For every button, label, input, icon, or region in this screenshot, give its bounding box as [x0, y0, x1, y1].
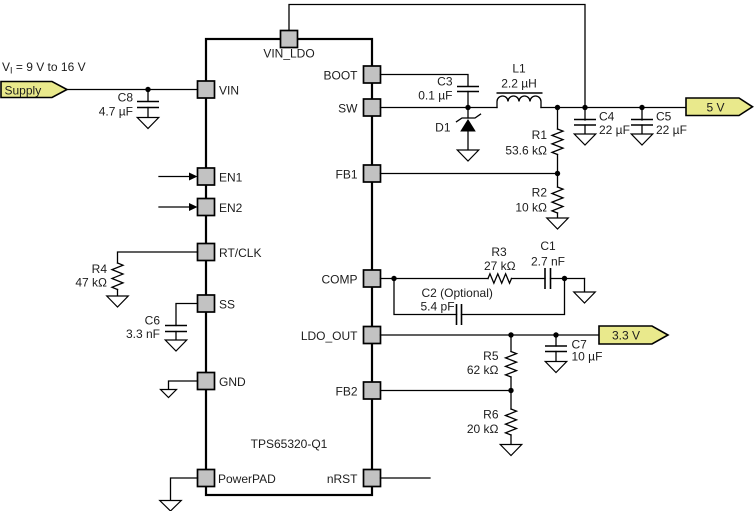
pin RT/CLK label [219, 246, 261, 260]
wire SS to C6 [176, 304, 198, 326]
wire R5 to FB2 node [510, 377, 512, 391]
pin SS label [219, 298, 235, 312]
capacitor C6 label [145, 314, 161, 328]
wire PowerPAD to ground [171, 478, 198, 501]
ground below C8 [137, 118, 159, 129]
svg-text:C2 (Optional): C2 (Optional) [422, 286, 493, 300]
net flag Supply [1, 82, 67, 98]
node junction C7 [553, 332, 558, 337]
svg-text:2.2 µH: 2.2 µH [501, 77, 537, 91]
resistor R2 label [532, 186, 548, 200]
svg-text:C6: C6 [145, 314, 161, 328]
net flag 5 V [686, 98, 753, 116]
svg-text:2.7 nF: 2.7 nF [531, 255, 565, 269]
ground below C6 [165, 340, 187, 351]
svg-text:3.3 nF: 3.3 nF [126, 327, 160, 341]
pin RT/CLK [198, 244, 215, 261]
pin VIN_LDO [281, 31, 298, 48]
capacitor C5 label [656, 110, 672, 124]
svg-text:R2: R2 [532, 186, 548, 200]
capacitor C4 label [599, 110, 615, 124]
svg-text:62 kΩ: 62 kΩ [467, 363, 499, 377]
svg-text:GND: GND [219, 375, 246, 389]
svg-text:3.3 V: 3.3 V [612, 328, 640, 342]
resistor R3 [488, 274, 512, 283]
svg-text:10 kΩ: 10 kΩ [515, 201, 547, 215]
wire nRST stub [381, 477, 431, 479]
resistor R6 value 20 kOhm [467, 422, 499, 436]
inductor L1 [497, 93, 543, 108]
capacitor C7 value 10 uF [572, 350, 603, 364]
capacitor C6 value 3.3 nF [126, 327, 160, 341]
net flag 3.3 V [599, 326, 668, 344]
ground below C4 [574, 134, 596, 145]
ground below PowerPAD [160, 501, 182, 511]
arrow into EN1 [159, 173, 198, 181]
svg-text:L1: L1 [512, 62, 526, 76]
wire C7 top [555, 335, 557, 346]
wire GND pin to ground [169, 381, 198, 390]
capacitor C8 label [118, 91, 134, 105]
pin SW label [338, 102, 358, 116]
resistor R4 [112, 263, 123, 290]
resistor R6 label [483, 408, 499, 422]
capacitor C4 value 22 uF [599, 123, 630, 137]
wire C5 top [641, 108, 643, 121]
node junction Supply/C8 [145, 87, 150, 92]
svg-text:FB1: FB1 [335, 168, 357, 182]
wire C2 right leg [462, 279, 565, 315]
capacitor C4 [574, 120, 596, 126]
node junction C5 [639, 105, 644, 110]
pin LDO_OUT [364, 327, 381, 344]
node junction R5 [508, 332, 513, 337]
svg-text:FB2: FB2 [335, 385, 357, 399]
capacitor C5 [631, 120, 653, 126]
capacitor C3 value 0.1 uF [418, 89, 452, 103]
node junction FB1/R1/R2 [555, 171, 560, 176]
pin SS [198, 295, 215, 312]
wire R2 to ground [557, 213, 559, 218]
ground below C5 [631, 134, 653, 145]
wire SW node to R1 [557, 108, 559, 130]
wire FB1 node to R2 [557, 174, 559, 188]
node junction COMP/C2 [391, 276, 396, 281]
resistor R2 [552, 187, 563, 213]
pin COMP [364, 270, 381, 287]
wire R6 to ground [510, 435, 512, 445]
svg-text:COMP: COMP [322, 273, 358, 287]
wire C4 bottom [584, 125, 586, 134]
svg-text:R4: R4 [92, 262, 108, 276]
pin BOOT [364, 66, 381, 83]
wire Supply to VIN [67, 89, 198, 91]
svg-text:22 µF: 22 µF [656, 123, 687, 137]
svg-text:RT/CLK: RT/CLK [219, 246, 261, 260]
svg-text:R5: R5 [483, 349, 499, 363]
svg-text:27 kΩ: 27 kΩ [484, 259, 516, 273]
svg-text:VIN: VIN [219, 84, 239, 98]
wire C6 to ground [175, 332, 177, 341]
inductor L1 label [512, 62, 526, 76]
wire C3 to SW node [467, 92, 469, 108]
diode D1 body [460, 119, 476, 132]
pin EN1 label [219, 171, 243, 185]
wire FB2 node to R6 [510, 391, 512, 410]
svg-text:TPS65320-Q1: TPS65320-Q1 [251, 437, 328, 451]
pin EN1 [198, 168, 215, 185]
wire C8 top [147, 90, 149, 102]
svg-text:C1: C1 [540, 239, 556, 253]
svg-text:10 µF: 10 µF [572, 350, 603, 364]
pin COMP label [322, 273, 358, 287]
svg-text:R1: R1 [532, 128, 548, 142]
pin EN2 label [219, 201, 243, 215]
ground at GND pin [161, 390, 177, 398]
ground below R2 [547, 218, 569, 229]
capacitor C3 [457, 87, 479, 92]
resistor R3 label [491, 245, 507, 259]
capacitor C7 [545, 346, 567, 352]
input voltage note V_I = 9 V to 16 V [2, 60, 86, 76]
svg-text:R6: R6 [483, 408, 499, 422]
net flag 3.3 V text [612, 328, 640, 342]
svg-text:20 kΩ: 20 kΩ [467, 422, 499, 436]
svg-text:BOOT: BOOT [323, 69, 358, 83]
svg-text:0.1 µF: 0.1 µF [418, 89, 452, 103]
node junction C1/C2 [562, 276, 567, 281]
pin FB1 label [335, 168, 357, 182]
wire R4 to ground [117, 290, 119, 297]
node junction L1/R1 [555, 105, 560, 110]
pin GND [198, 373, 215, 390]
IC U1 TPS65320-Q1 body [206, 39, 372, 495]
resistor R4 value 47 kOhm [75, 276, 107, 290]
pin FB1 [364, 165, 381, 182]
resistor R5 value 62 kOhm [467, 363, 499, 377]
pin PowerPAD label [218, 472, 276, 486]
resistor R5 [506, 352, 517, 378]
pin nRST label [327, 472, 358, 486]
svg-text:53.6 kΩ: 53.6 kΩ [505, 144, 547, 158]
wire LDO node to R5 [510, 335, 512, 352]
svg-text:SS: SS [219, 298, 235, 312]
pin FB2 [364, 382, 381, 399]
wire SW to L1 [381, 107, 498, 109]
svg-text:Supply: Supply [5, 84, 42, 98]
capacitor C2 label C2 (Optional) [422, 286, 493, 300]
wire LDO_OUT to 3.3-V flag [381, 334, 600, 336]
IC U1 name label TPS65320-Q1 [251, 437, 328, 451]
pin BOOT label [323, 69, 358, 83]
capacitor C2 value 5.4 pF [421, 300, 455, 314]
capacitor C3 label [437, 75, 453, 89]
pin GND label [219, 375, 246, 389]
arrow into EN2 [159, 203, 198, 211]
capacitor C5 value 22 uF [656, 123, 687, 137]
svg-text:5 V: 5 V [706, 100, 724, 114]
ground below D1 [457, 150, 479, 161]
svg-text:22 µF: 22 µF [599, 123, 630, 137]
wire R3 to C1 [512, 278, 546, 280]
svg-text:47 kΩ: 47 kΩ [75, 276, 107, 290]
pin nRST [364, 470, 381, 487]
wire C5 bottom [641, 125, 643, 134]
pin FB2 label [335, 385, 357, 399]
capacitor C7 label [572, 338, 588, 352]
wire BOOT to C3 [381, 75, 469, 87]
ground below R4 [107, 296, 129, 307]
resistor R6 [506, 409, 517, 435]
wire FB1 to divider [381, 173, 558, 175]
svg-text:EN1: EN1 [219, 171, 243, 185]
capacitor C1 label [540, 239, 556, 253]
svg-text:5.4 pF: 5.4 pF [421, 300, 455, 314]
svg-text:C4: C4 [599, 110, 615, 124]
svg-text:4.7 µF: 4.7 µF [99, 105, 133, 119]
wire C1 to ground branch [551, 278, 585, 280]
svg-text:R3: R3 [491, 245, 507, 259]
wire L1 to 5-V flag [541, 107, 686, 109]
diode D1 label [435, 121, 451, 135]
wire C2 left leg [394, 279, 457, 315]
capacitor C6 [165, 326, 187, 332]
ground below R6 [500, 445, 522, 456]
svg-text:SW: SW [338, 102, 358, 116]
pin VIN_LDO label [263, 47, 314, 61]
svg-text:EN2: EN2 [219, 201, 243, 215]
inductor L1 value 2.2 uH [501, 77, 537, 91]
capacitor C1 value 2.7 nF [531, 255, 565, 269]
wire down to ground COMP [584, 279, 586, 293]
resistor R1 [552, 129, 563, 155]
wire FB2 to divider [381, 390, 512, 392]
pin SW [364, 99, 381, 116]
capacitor C2 [457, 304, 462, 325]
svg-text:C5: C5 [656, 110, 672, 124]
node junction C4/VIN_LDO [582, 105, 587, 110]
resistor R1 value 53.6 kOhm [505, 144, 547, 158]
pin EN2 [198, 199, 215, 216]
wire VIN_LDO to 5-V output node (up, across top, down) [289, 5, 585, 108]
svg-text:D1: D1 [435, 121, 451, 135]
capacitor C1 [545, 268, 551, 289]
pin VIN label [219, 84, 239, 98]
svg-text:C3: C3 [437, 75, 453, 89]
wire COMP to R3 [381, 278, 489, 280]
node junction SW/D1/C3 [465, 105, 470, 110]
resistor R5 label [483, 349, 499, 363]
svg-text:VI = 9 V to 16 V: VI = 9 V to 16 V [2, 60, 86, 76]
pin PowerPAD [198, 470, 215, 487]
net flag Supply text [5, 84, 42, 98]
wire C4 top [584, 108, 586, 121]
diode D1 cathode bar [457, 114, 481, 122]
svg-text:VIN_LDO: VIN_LDO [263, 47, 314, 61]
wire R1 to FB1 node [557, 155, 559, 174]
wire RT/CLK to R4 [118, 252, 198, 263]
capacitor C8 value 4.7 uF [99, 105, 133, 119]
pin VIN [198, 81, 215, 98]
resistor R1 label [532, 128, 548, 142]
svg-text:LDO_OUT: LDO_OUT [301, 329, 358, 343]
resistor R3 value 27 kOhm [484, 259, 516, 273]
resistor R2 value 10 kOhm [515, 201, 547, 215]
svg-text:PowerPAD: PowerPAD [218, 472, 276, 486]
capacitor C8 [137, 102, 159, 108]
ground below C7 [545, 362, 567, 373]
resistor R4 label [92, 262, 108, 276]
wire D1 to ground [467, 132, 469, 151]
net flag 5 V text [706, 100, 724, 114]
ground of COMP network [574, 292, 596, 303]
svg-text:nRST: nRST [327, 472, 358, 486]
wire SW node to D1 [467, 108, 469, 119]
node junction FB2/R5/R6 [508, 388, 513, 393]
wire C7 bottom [555, 352, 557, 362]
svg-text:C8: C8 [118, 91, 134, 105]
wire C8 bottom [147, 108, 149, 118]
pin LDO_OUT label [301, 329, 358, 343]
